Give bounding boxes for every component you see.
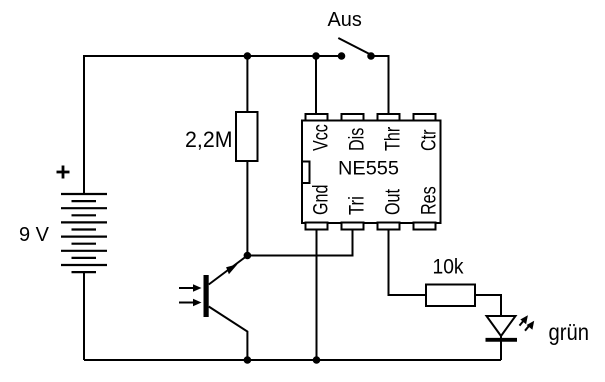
wire bottom rail (84, 359, 501, 361)
svg-text:10k: 10k (433, 256, 464, 279)
svg-text:Dis: Dis (345, 128, 369, 151)
svg-text:Thr: Thr (381, 127, 405, 151)
phototransistor Q1 base bar (204, 275, 209, 317)
pin Dis top 2 (342, 114, 364, 121)
wire resistor R2 to LED anode (475, 295, 501, 316)
node junction dot resistor R1 top (244, 52, 252, 60)
pin Ctr top 4 (414, 114, 436, 121)
phototransistor Q1 emitter lead (209, 307, 248, 361)
IC U1 pin-1 notch marker (302, 162, 310, 184)
svg-text:9 V: 9 V (19, 223, 49, 246)
pin Tri bottom 6 (342, 223, 364, 230)
wire switch right contact to Thr pin (371, 56, 389, 114)
resistor R1 2,2M body (236, 112, 258, 161)
IC U1 NE555 body (302, 121, 441, 224)
wire Out pin to resistor R2 (389, 230, 427, 296)
pin Gnd bottom 5 (306, 223, 328, 230)
svg-text:Ctr: Ctr (417, 130, 441, 152)
wire battery minus to bottom rail (83, 272, 85, 360)
svg-text:Out: Out (381, 189, 405, 215)
svg-text:2,2M: 2,2M (185, 127, 233, 152)
LED D1 triangle (487, 316, 516, 336)
switch S1 left contact dot (338, 52, 346, 60)
node junction dot Gnd at bottom rail (313, 356, 321, 364)
phototransistor Q1 light arrow lower (179, 302, 195, 304)
node junction dot collector/trigger (244, 252, 252, 260)
switch S1 right contact dot (367, 52, 375, 60)
node junction dot emitter to bottom rail (244, 356, 252, 364)
svg-text:Aus: Aus (328, 9, 362, 31)
svg-text:NE555: NE555 (338, 158, 399, 180)
pin Vcc top 1 (306, 114, 328, 121)
phototransistor Q1 light arrow upper (179, 287, 195, 289)
battery BT1 9V plus sign (57, 166, 70, 179)
svg-text:Vcc: Vcc (309, 124, 333, 151)
LED D1 emission arrow upper (520, 320, 525, 326)
battery BT1 9V cell plates (61, 194, 107, 272)
wire Gnd pin to bottom rail (316, 230, 318, 361)
LED D1 cathode bar (486, 338, 518, 342)
pin Out bottom 7 (378, 223, 400, 230)
svg-text:Gnd: Gnd (309, 185, 333, 215)
switch S1 lever (open) (338, 38, 369, 54)
svg-text:Res: Res (417, 186, 441, 215)
node junction dot Vcc branch (312, 52, 320, 60)
pin Thr top 3 (378, 114, 400, 121)
resistor R2 10k body (426, 285, 475, 307)
wire top rail from battery plus to switch left contact (84, 56, 342, 194)
svg-text:grün: grün (549, 319, 590, 345)
wire node to Tri pin (247, 230, 352, 256)
wire resistor R1 top lead (246, 56, 248, 112)
pin Res bottom 8 (414, 223, 436, 230)
wire LED cathode to bottom rail (500, 336, 502, 360)
svg-text:Tri: Tri (345, 196, 369, 215)
LED D1 emission arrow lower (525, 325, 530, 331)
wire resistor R1 bottom lead to node (246, 161, 248, 256)
phototransistor Q1 collector lead with arrow (209, 256, 248, 285)
wire Vcc pin drop from top rail (315, 56, 317, 114)
